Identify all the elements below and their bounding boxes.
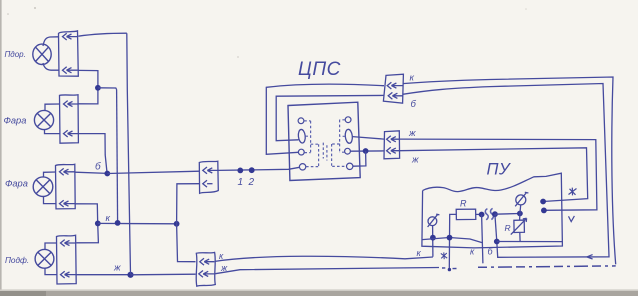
svg-text:Подф.: Подф. (5, 256, 29, 265)
wire inner loop (oval-left to X6 pin2) (276, 95, 384, 140)
node Zh dot (127, 272, 133, 278)
arrowhead on B wire (587, 255, 593, 259)
fuse/bimetal symbol (485, 208, 493, 219)
ink blob at R1 stem end (448, 268, 451, 271)
scanner left edge (0, 0, 2, 296)
wire X4 bottom to node Zh (76, 274, 130, 276)
wire node Zh to connector X8 (131, 273, 196, 276)
lamp HL3 "Фара" (33, 177, 53, 197)
relay dashed linkage right (332, 120, 346, 167)
relay pin circle c5 (345, 148, 351, 154)
node dot D (EL2 stem) (517, 211, 523, 217)
scanner bottom band (0, 291, 638, 296)
wire K long (X6 pin1 to right drop) (403, 77, 616, 264)
wire X2 bottom to B riser (78, 134, 107, 174)
svg-text:ПУ: ПУ (487, 161, 511, 179)
wire node K down to X8 pin1 (177, 224, 196, 262)
wire dot C to lamp EL2 stem (495, 213, 520, 216)
svg-text:Фара: Фара (5, 179, 28, 189)
relay dashed linkage left (304, 121, 318, 167)
wire EL2 stem (520, 205, 521, 220)
relay pin oval left (298, 129, 306, 143)
wire X3 bottom to node K (75, 204, 98, 224)
svg-text:ж: ж (411, 155, 419, 166)
wire node to K riser (98, 88, 117, 90)
wire B long (X6 pin2 to PU) (403, 84, 609, 258)
wire HL1 bottom to X1 (43, 63, 59, 70)
indicator lamp EL2 (crossed circle) (515, 192, 528, 206)
svg-text:б: б (95, 161, 101, 173)
scanner band dark corner (0, 291, 46, 296)
connector X1 (59, 31, 79, 76)
wire HL2 top to X2 (45, 104, 60, 111)
svg-text:ЦПС: ЦПС (298, 59, 341, 80)
relay pin circle c4 (345, 117, 351, 123)
relay pin circle c1 (298, 118, 304, 124)
connector X3 (56, 164, 76, 209)
resistor R2 (variable) (511, 218, 527, 234)
connector X7 (384, 131, 400, 159)
wire HL1 top to X1 (43, 37, 59, 46)
node K dot (mid, x~176) (174, 221, 180, 227)
wire X2 top to node (78, 88, 98, 104)
lamp HL4 "Подф." (35, 249, 54, 268)
wire Zh1 long (X7 pin1 to switch dot) (400, 139, 597, 210)
wire node B to connector X5 (107, 171, 199, 173)
node B dot (104, 171, 110, 177)
wire K long bottom (X8 pin1 to PU) (215, 256, 433, 261)
node dot c5 jumper (363, 148, 369, 154)
indicator lamp EL1 (crossed circle) (428, 214, 440, 227)
wire oval-right to X7 pin1 (353, 137, 384, 140)
wire jumper c5 to c6 (353, 151, 366, 166)
node dot C (fuse right) (492, 211, 498, 217)
label "ж" below PU left (441, 252, 447, 259)
relay pin circle c2 (298, 149, 304, 155)
wire Zh riser (x~128) (127, 33, 131, 274)
svg-text:к: к (106, 213, 111, 224)
node dot A (EL1 on bus) (430, 235, 436, 241)
wire HL4 top to X4 (45, 243, 57, 249)
relay U1 box (288, 102, 360, 180)
relay pin oval right (345, 129, 353, 144)
wire X4 top to node K drop (76, 223, 98, 243)
connector X5 (199, 161, 218, 193)
wire K riser (x~117) (117, 90, 118, 223)
wire R1 left stem (449, 214, 456, 269)
chassis dash-dot line (478, 266, 616, 267)
svg-text:R: R (460, 199, 467, 209)
wire dot C down to dot E (495, 214, 497, 241)
label "ж" near switch dots (569, 188, 577, 196)
node K dot (on riser) (115, 220, 121, 226)
connector X4 (57, 235, 77, 284)
connector X2 (60, 95, 79, 143)
wire Zh2 long (X7 pin2 to switch dot) (400, 148, 588, 202)
svg-text:R: R (505, 223, 511, 233)
wire X3 top to node B (75, 172, 107, 173)
svg-text:1: 1 (238, 177, 244, 188)
relay pin circle c3 (299, 164, 305, 170)
relay pin circle c6 (347, 163, 353, 169)
node K dot (left) (95, 221, 101, 227)
relay dashed armature (323, 143, 327, 161)
wire outer loop (c2 to X6 pin1) (266, 84, 384, 154)
paper specks (34, 7, 36, 9)
node dot at fuse left (479, 212, 485, 218)
svg-text:ж: ж (408, 128, 416, 139)
connector X8 (196, 252, 215, 286)
switch contact dot upper (540, 199, 546, 205)
wire R1 right to fuse (476, 213, 482, 215)
connector X6 (383, 74, 403, 103)
chassis dashed line (left bits) (442, 267, 457, 270)
wire R2 bottom stem (519, 233, 521, 242)
label "v" near switch dots (569, 216, 575, 222)
wire EL1 stem (432, 226, 434, 257)
wire HL2 bottom to X2 (45, 130, 60, 134)
wire HL4 bottom to X4 (45, 268, 57, 274)
wire node K up to X5 pin2 (177, 184, 200, 224)
wire HL3 bottom to X3 (44, 197, 56, 204)
switch contact dot lower (541, 208, 547, 214)
svg-text:2: 2 (248, 177, 255, 188)
node dot (HL1-/HL2+ junction) (95, 85, 101, 91)
svg-text:Фара: Фара (4, 116, 27, 126)
lamp HL1 "Пдор." (33, 44, 51, 64)
wire drop from fuse-left node to chassis (482, 215, 483, 264)
wire X1 bottom to node (78, 70, 98, 87)
wire dot E right (497, 241, 563, 243)
PU box outline (422, 173, 563, 248)
node dot E (494, 239, 500, 245)
wire Zh long bottom (X8 pin2 rightwards) (215, 268, 439, 274)
svg-text:ж: ж (113, 263, 121, 274)
node 1 dot (237, 168, 243, 174)
node dot B (R1 on bus) (447, 235, 453, 241)
PU bus wire (422, 238, 482, 243)
resistor R1 (456, 209, 476, 220)
wire c5 to X7 pin2 (351, 150, 385, 152)
svg-text:к: к (410, 73, 415, 84)
svg-text:Пдор.: Пдор. (5, 50, 26, 59)
svg-text:б: б (411, 99, 417, 110)
lamp HL2 "Фара" (34, 110, 53, 129)
node 2 dot (249, 167, 255, 173)
wire X5 pin1 to relay (through nodes 1,2) (218, 167, 299, 170)
wire HL3 top to X3 (44, 172, 56, 177)
wire node K left-to-right (98, 222, 177, 224)
wire X1 top to riser (78, 33, 127, 36)
